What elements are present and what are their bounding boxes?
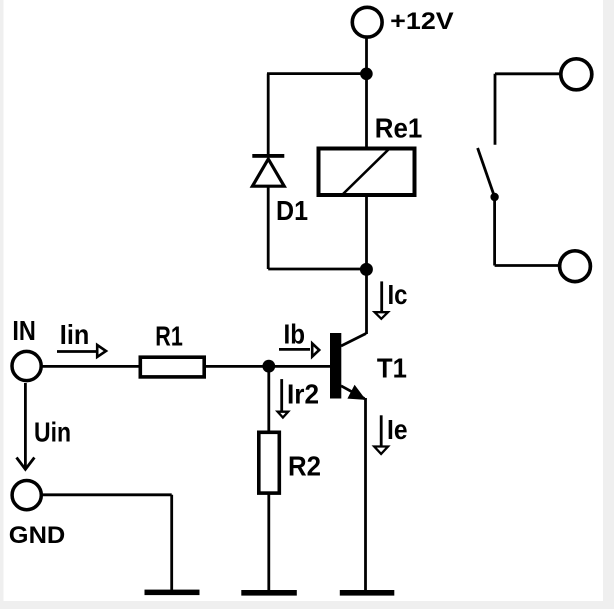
wire R1 to base node bbox=[204, 365, 330, 368]
ground bar 1 bbox=[145, 590, 200, 596]
switch blade bbox=[478, 148, 499, 201]
svg-text:IN: IN bbox=[12, 315, 36, 346]
node junction base/R2 bbox=[262, 360, 275, 373]
transistor T1 bbox=[330, 333, 366, 399]
ground bar 2 bbox=[241, 590, 296, 596]
current arrow Iin bbox=[57, 345, 106, 357]
wire relay bottom to collector bbox=[365, 195, 368, 334]
wire from +12V terminal down to relay bbox=[365, 38, 368, 147]
wire IN to R1 bbox=[41, 365, 140, 368]
svg-text:Re1: Re1 bbox=[375, 113, 423, 144]
current arrow Ie bbox=[374, 415, 388, 454]
wire GND to ground bar bbox=[42, 495, 172, 592]
node junction at +12V rail bbox=[360, 68, 373, 81]
svg-text:R2: R2 bbox=[288, 450, 321, 481]
wire R2 down to ground bbox=[267, 493, 270, 592]
svg-text:R1: R1 bbox=[155, 320, 183, 351]
svg-text:Iin: Iin bbox=[60, 319, 90, 350]
svg-text:Ie: Ie bbox=[387, 414, 408, 445]
svg-text:Uin: Uin bbox=[34, 416, 71, 447]
svg-text:Ir2: Ir2 bbox=[287, 378, 319, 409]
wire base node down to R2 bbox=[267, 366, 270, 432]
svg-text:D1: D1 bbox=[276, 195, 308, 226]
resistor R1 bbox=[140, 357, 204, 377]
diode D1 bbox=[252, 154, 284, 186]
wire emitter down to ground bbox=[364, 398, 367, 592]
switch contact terminal top bbox=[561, 59, 592, 90]
current arrow Ir2 bbox=[278, 379, 289, 417]
wire diode anode down bbox=[267, 187, 270, 269]
node junction collector bbox=[360, 263, 373, 276]
svg-text:T1: T1 bbox=[377, 352, 407, 383]
wire switch bottom bbox=[495, 197, 559, 266]
current arrow Uin bbox=[17, 383, 35, 469]
svg-text:GND: GND bbox=[9, 522, 66, 549]
terminal GND bbox=[12, 481, 41, 510]
current arrow Ic bbox=[375, 281, 388, 318]
wire top horizontal to diode branch bbox=[267, 72, 367, 75]
svg-text:+12V: +12V bbox=[390, 8, 454, 35]
svg-text:Ic: Ic bbox=[388, 279, 408, 310]
switch contact terminal bottom bbox=[560, 251, 591, 282]
wire switch top bbox=[495, 74, 560, 145]
resistor R2 bbox=[259, 432, 280, 493]
wire lower horizontal diode to collector node bbox=[268, 268, 366, 271]
terminal +12V bbox=[352, 7, 382, 37]
ground bar 3 bbox=[340, 590, 395, 596]
wire diode branch upper vertical bbox=[267, 74, 270, 156]
current arrow Ib bbox=[279, 343, 319, 356]
svg-text:Ib: Ib bbox=[284, 318, 306, 349]
terminal IN bbox=[12, 351, 41, 380]
relay Re1 bbox=[319, 149, 415, 196]
